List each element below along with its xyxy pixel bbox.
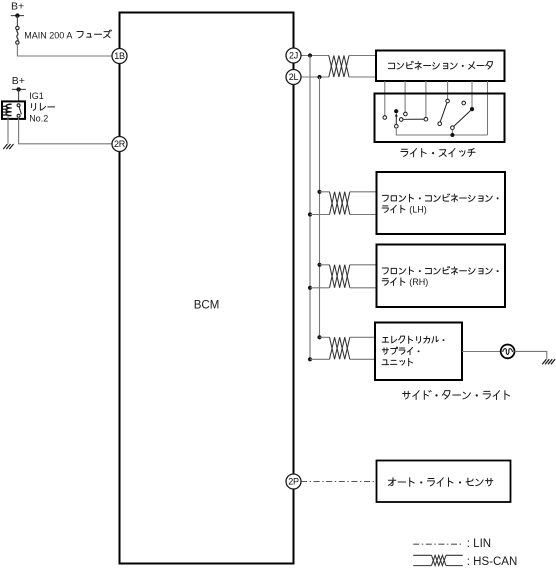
node junction on rail: [450, 133, 454, 137]
wire braid to front combination light RH (top): [350, 264, 377, 266]
lamp side turn light: [501, 345, 515, 359]
svg-text:: LIN: : LIN: [467, 538, 491, 550]
switch wiper arm with arrow: [395, 113, 399, 128]
label combination meter name: [388, 61, 492, 69]
svg-text:B+: B+: [12, 75, 25, 87]
svg-text:B+: B+: [11, 1, 24, 13]
label front combination light LH line2: [382, 205, 405, 213]
wire tap to braid top (front combination light LH): [320, 191, 330, 193]
connector pin 1B: [112, 49, 127, 64]
light switch box S1: [375, 94, 505, 143]
label light switch name: [401, 148, 475, 156]
connector pin 2P: [286, 474, 301, 489]
twisted pair HS-CAN to front combination light RH: [330, 265, 350, 288]
wire B+ to fuse: [16, 16, 18, 27]
switch contact A: [383, 116, 387, 120]
legend HS-CAN twisted pair sample: [413, 555, 463, 565]
svg-text:2P: 2P: [288, 477, 299, 487]
wire tap to braid top (front combination light RH): [320, 264, 330, 266]
svg-text:2R: 2R: [114, 139, 126, 149]
svg-text:2L: 2L: [289, 72, 299, 82]
wire braid to front combination light RH (bottom): [350, 287, 377, 289]
svg-text:IG1: IG1: [29, 91, 44, 101]
wire S1b pivot to rail: [451, 130, 453, 136]
switch S1b arm: [454, 111, 471, 127]
wire relay to pin 2R: [19, 117, 112, 144]
label front combination light LH line1: [382, 194, 498, 202]
switch contact E: [424, 117, 428, 121]
switch S1a contact: [446, 99, 450, 103]
wire tap to braid top (electrical supply unit): [320, 336, 330, 338]
switch contact D: [399, 118, 403, 122]
svg-text:(RH): (RH): [409, 277, 428, 287]
label front combination light RH line2: [382, 278, 405, 286]
svg-text:2J: 2J: [289, 51, 298, 61]
switch contact C: [404, 112, 408, 116]
label front combination light RH line1: [382, 267, 498, 275]
wire tap to braid bottom (electrical supply unit): [310, 358, 330, 360]
wire ESU to side turn light bulb: [462, 351, 501, 353]
label ESU line2: [382, 347, 419, 355]
switch S1a pivot: [438, 122, 442, 126]
wire tap to braid bottom (front combination light LH): [310, 214, 330, 216]
wire braid to meter (top): [349, 55, 376, 57]
wire 2J bus vertical: [309, 56, 311, 360]
wire bulb to ground: [515, 351, 547, 359]
node junction on 2J wire: [308, 53, 312, 57]
node junction on 2L wire: [317, 75, 321, 79]
switch open contact: [462, 101, 466, 105]
wire wiper to common rail: [396, 128, 487, 135]
ground for side turn light: [542, 359, 555, 364]
switch contact B (selected, filled): [394, 109, 398, 113]
power B+ terminal 2: [12, 75, 26, 92]
wire relay coil to ground: [7, 116, 9, 144]
wire B+ to relay: [18, 89, 20, 104]
auto light sensor box: [377, 461, 511, 503]
fuse MAIN 200 A: [16, 26, 19, 44]
wire pin 2L to junction: [301, 76, 329, 78]
svg-text:No.2: No.2: [29, 113, 48, 123]
switch S1b pivot: [451, 126, 455, 130]
relay switch contacts: [17, 104, 21, 118]
ground for relay coil: [3, 144, 13, 149]
connector pin 2L: [286, 70, 301, 85]
front combination light LH box: [377, 172, 506, 234]
node junction 2L bus at front combination light LH: [317, 190, 321, 194]
wire tap to braid bottom (front combination light RH): [310, 287, 330, 289]
label ESU line3: [382, 359, 412, 366]
node junction 2J bus at front combination light RH: [308, 286, 312, 290]
node junction 2J bus at front combination light LH: [308, 212, 312, 216]
combination meter box U2: [376, 51, 505, 82]
wires meter to light switch: [385, 81, 488, 135]
twisted pair HS-CAN to front combination light LH: [330, 192, 350, 215]
wire pin 2J to junction: [301, 55, 329, 57]
node junction 2J bus at electrical supply unit: [308, 357, 312, 361]
svg-text:(LH): (LH): [409, 204, 427, 214]
label relay name リレー: [32, 103, 55, 110]
electrical supply unit box: [375, 323, 462, 381]
twisted pair HS-CAN to combination meter: [329, 56, 349, 78]
node junction 2L bus at electrical supply unit: [317, 335, 321, 339]
svg-text:1B: 1B: [114, 51, 125, 61]
BCM box: [120, 13, 294, 564]
connector pin 2R: [112, 137, 127, 152]
wire braid to electrical supply unit (bottom): [350, 358, 375, 360]
label ESU line1: [382, 336, 444, 343]
relay IG1 No.2 box: [2, 101, 25, 119]
node junction 2L bus at front combination light RH: [317, 263, 321, 267]
switch S1a arm: [440, 103, 447, 122]
wire LIN pin 2P to auto light sensor: [301, 481, 377, 483]
legend LIN line sample: [413, 543, 463, 545]
wire braid to electrical supply unit (top): [350, 336, 375, 338]
svg-text:MAIN 200 A: MAIN 200 A: [24, 30, 72, 40]
wire fuse to pin 1B: [17, 44, 112, 56]
relay coil: [3, 104, 12, 115]
label fuse name フューズ: [77, 30, 112, 38]
wire braid to front combination light LH (bottom): [350, 214, 377, 216]
switch S1b contact (filled): [470, 107, 474, 111]
label auto light sensor name: [388, 478, 492, 487]
wire braid to front combination light LH (top): [350, 191, 377, 193]
wire 2L bus vertical: [319, 77, 321, 337]
twisted pair HS-CAN to electrical supply unit: [330, 337, 350, 359]
connector pin 2J: [286, 48, 301, 63]
power B+ terminal 1: [11, 1, 24, 18]
wire contact D to contact E: [403, 118, 424, 120]
front combination light RH box: [377, 245, 506, 308]
svg-text:: HS-CAN: : HS-CAN: [467, 556, 517, 568]
wire braid to meter (bottom): [349, 76, 376, 78]
svg-text:BCM: BCM: [194, 300, 220, 312]
label side turn light name: [403, 391, 510, 400]
